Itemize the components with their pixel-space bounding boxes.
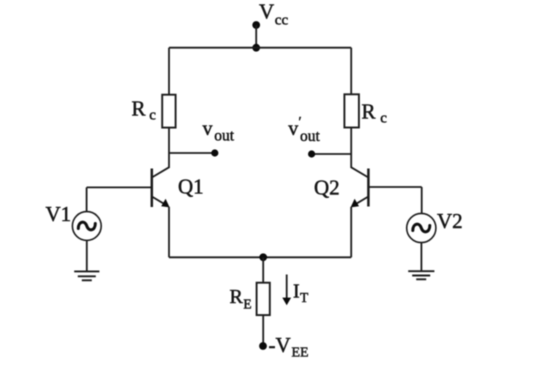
svg-text:c: c — [380, 111, 387, 127]
wire vout tap — [169, 152, 215, 154]
label vout — [203, 118, 235, 145]
wire V2 vertical — [421, 187, 423, 214]
wire Q1 base — [87, 186, 152, 188]
resistor Rc right — [344, 94, 359, 127]
svg-text:V1: V1 — [46, 202, 72, 226]
source V2 — [407, 213, 436, 242]
wire Q1 emitter down — [168, 207, 170, 257]
svg-text:R: R — [132, 97, 146, 121]
svg-text:cc: cc — [275, 12, 289, 28]
wire right collector drop upper — [350, 48, 352, 95]
label Rc right — [362, 100, 388, 127]
wire V1 to ground — [86, 240, 88, 271]
node vout dot — [211, 149, 218, 156]
wire left collector drop lower — [168, 128, 170, 168]
wire tail down — [262, 257, 264, 282]
node Vcc label — [259, 0, 288, 28]
svg-text:-V: -V — [269, 333, 291, 357]
wire right collector drop lower — [350, 128, 352, 169]
resistor Rc left — [162, 95, 175, 128]
svg-text:c: c — [149, 108, 156, 124]
terminal dot -VEE — [259, 342, 267, 350]
svg-text:v: v — [288, 118, 298, 140]
transistor Q1 — [152, 167, 170, 207]
label v'out — [288, 115, 320, 145]
svg-text:T: T — [300, 290, 309, 305]
Vcc terminal dot — [252, 21, 260, 29]
label -VEE — [269, 333, 309, 361]
label IT — [293, 281, 309, 306]
label RE — [230, 286, 252, 312]
junction dot Vcc on top rail — [252, 44, 260, 52]
ground left — [74, 271, 99, 280]
svg-text:v: v — [203, 118, 213, 140]
svg-text:EE: EE — [292, 346, 309, 361]
svg-text:out: out — [214, 128, 235, 145]
wire top rail — [169, 47, 351, 49]
node v'out dot — [308, 150, 315, 157]
svg-text:E: E — [243, 297, 251, 312]
wire bottom rail — [169, 256, 351, 258]
svg-text:V2: V2 — [437, 209, 463, 233]
svg-text:R: R — [230, 286, 244, 308]
ground right — [408, 271, 434, 279]
resistor RE — [257, 283, 270, 315]
svg-text:V: V — [259, 0, 274, 24]
wire Q2 emitter down — [350, 207, 352, 257]
wire V2 to ground — [420, 243, 422, 271]
current arrow IT — [282, 275, 291, 306]
wire Q2 base — [368, 186, 421, 188]
transistor Q2 — [351, 167, 369, 207]
svg-text:out: out — [300, 128, 321, 145]
wire v'out tap — [312, 153, 352, 155]
svg-text:Q2: Q2 — [314, 176, 340, 200]
wire Vcc stub — [255, 25, 257, 48]
svg-text:R: R — [362, 100, 376, 124]
source V1 — [72, 212, 101, 241]
svg-text:I: I — [293, 281, 300, 303]
wire RE to -VEE — [262, 315, 264, 346]
junction dot tail node — [259, 253, 267, 261]
wire V1 vertical — [86, 187, 88, 211]
svg-text:Q1: Q1 — [178, 175, 204, 199]
label Rc left — [132, 97, 157, 124]
wire left collector drop upper — [168, 48, 170, 95]
